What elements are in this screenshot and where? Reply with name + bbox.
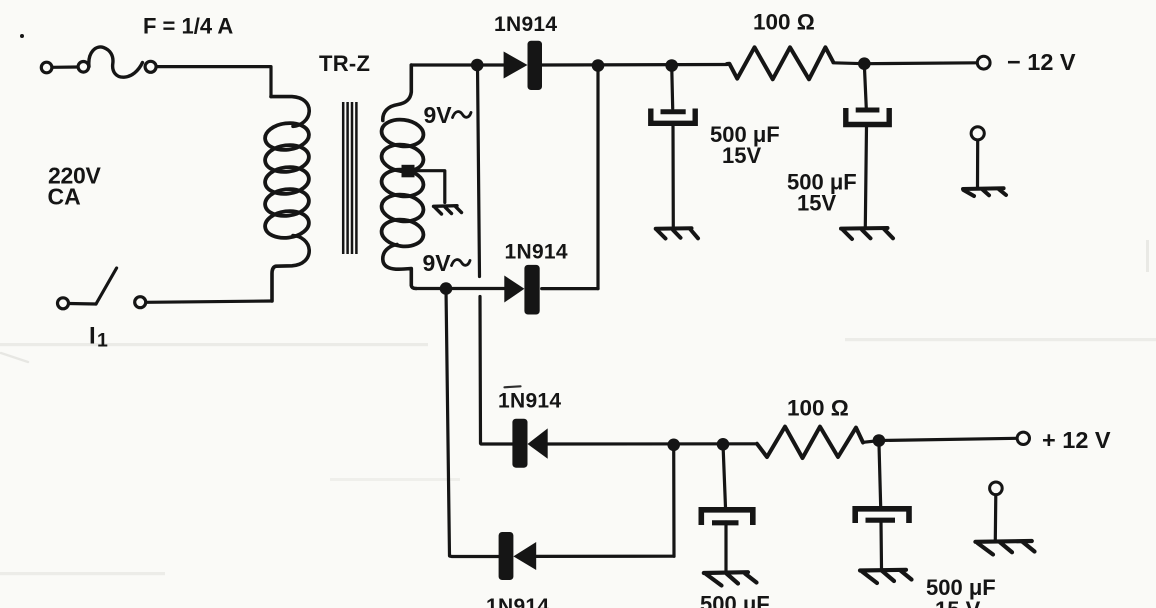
svg-text:9V: 9V (423, 250, 452, 276)
svg-text:I: I (89, 323, 96, 350)
svg-text:CA: CA (48, 184, 81, 210)
svg-text:TR-Z: TR-Z (319, 51, 370, 76)
svg-text:1N914: 1N914 (498, 390, 561, 413)
svg-text:+ 12 V: + 12 V (1042, 427, 1111, 453)
svg-text:15V: 15V (797, 191, 836, 216)
svg-text:9V: 9V (424, 102, 453, 128)
svg-text:1N914: 1N914 (505, 240, 568, 263)
svg-text:100 Ω: 100 Ω (787, 396, 849, 421)
svg-text:− 12 V: − 12 V (1007, 49, 1076, 75)
svg-text:15V: 15V (722, 143, 761, 168)
svg-text:500 μF: 500 μF (700, 592, 770, 608)
svg-text:1: 1 (97, 330, 108, 352)
svg-text:15 V: 15 V (935, 597, 981, 608)
svg-text:F = 1/4 A: F = 1/4 A (143, 14, 233, 39)
svg-text:1N914: 1N914 (494, 13, 557, 36)
svg-text:1N914: 1N914 (486, 595, 549, 608)
svg-text:100 Ω: 100 Ω (753, 10, 815, 35)
